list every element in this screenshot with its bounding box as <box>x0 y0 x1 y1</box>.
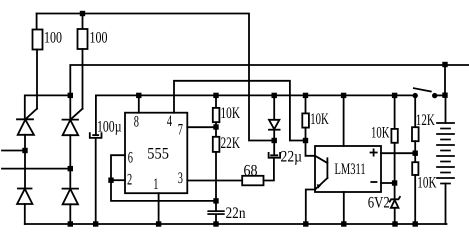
node AC1-SCR1 <box>22 148 27 153</box>
wire LM311 emitter to ground <box>306 190 315 225</box>
capacitor C1 100u <box>92 134 99 136</box>
node pin7 divider <box>213 124 218 129</box>
svg-text:8: 8 <box>134 114 139 131</box>
capacitor C3 22u <box>270 154 278 156</box>
diode D1 <box>18 188 32 190</box>
resistor R4 22K <box>215 127 217 137</box>
resistor R1 100 <box>36 14 38 30</box>
svg-text:10K: 10K <box>310 111 329 128</box>
switch S1 <box>414 88 431 91</box>
minus sign of LM311 <box>371 181 376 183</box>
node R3 top <box>213 93 218 98</box>
node D3 anode <box>272 93 277 98</box>
wire top rail <box>37 14 275 141</box>
node 555 pin8 Vcc <box>136 93 141 98</box>
resistor R7 10K <box>394 95 396 128</box>
resistor R5 68 <box>242 176 263 186</box>
IC U1 555 <box>125 113 187 194</box>
node ground R9 <box>413 221 418 226</box>
wire LM311 plus input pin <box>381 152 415 154</box>
resistor R9 10K <box>414 153 416 162</box>
node ground D2 <box>68 221 73 226</box>
svg-text:10K: 10K <box>371 124 390 141</box>
node plus input divider <box>413 151 418 156</box>
wire AC input 2 <box>2 168 70 170</box>
switch contact left <box>413 93 418 98</box>
node minus input zener <box>392 180 397 185</box>
svg-text:10K: 10K <box>221 105 241 122</box>
wire 555 pin 8 to Vcc <box>138 95 140 112</box>
diode D3 <box>273 95 275 119</box>
zener diode ZD 6V2 <box>394 183 396 199</box>
svg-text:22µ: 22µ <box>281 149 303 166</box>
node D3 cathode 22u <box>272 138 277 143</box>
wire Vcc rail <box>96 95 413 134</box>
diode D2 <box>63 188 79 190</box>
svg-text:7: 7 <box>178 122 183 139</box>
battery BT1 <box>437 123 454 184</box>
node 22n top <box>213 198 218 203</box>
svg-text:3: 3 <box>178 170 183 187</box>
svg-text:6V2: 6V2 <box>368 195 390 212</box>
svg-text:22K: 22K <box>221 135 241 152</box>
node R6 top <box>303 93 308 98</box>
node switch-battery <box>442 93 447 98</box>
svg-text:555: 555 <box>147 146 169 163</box>
resistor R2 100 <box>82 14 84 30</box>
node LM311 V+ <box>341 93 346 98</box>
wire LM311 minus input pin <box>381 182 394 184</box>
switch contact right <box>432 93 437 98</box>
node ground zener <box>392 221 397 226</box>
node R2 top <box>80 11 85 16</box>
wire LM311 input <box>306 141 316 156</box>
wire 555 pins 2-6 <box>111 155 216 201</box>
resistor R3 10K <box>215 95 217 108</box>
wire battery column <box>444 65 446 95</box>
svg-text:100: 100 <box>44 30 62 47</box>
wire bottom ground rail <box>25 223 447 225</box>
thyristor SCR2 <box>70 109 82 120</box>
wire AC input 1 <box>2 150 25 152</box>
node pin2 tap <box>108 178 113 183</box>
node ground pin1 <box>156 221 161 226</box>
wire LM311 V+ pin <box>343 95 345 146</box>
transistor inside LM311 <box>315 156 327 163</box>
node SCR cathodes <box>68 93 73 98</box>
svg-text:68: 68 <box>244 162 258 179</box>
resistor R8 12K <box>414 98 416 127</box>
node ground 22n <box>213 221 218 226</box>
wire 555 pin 1 to ground <box>158 193 160 224</box>
node LM311 input <box>303 138 308 143</box>
wire LM311 ground pin <box>343 192 345 224</box>
svg-text:1: 1 <box>153 176 158 193</box>
node ground 100u <box>93 221 98 226</box>
node AC2-SCR2 <box>68 166 73 171</box>
wire 555 pin 3 <box>187 180 242 182</box>
svg-text:2: 2 <box>127 172 132 189</box>
node ground emitter <box>303 221 308 226</box>
wire 555 pin 4 to LM311 input <box>174 81 306 141</box>
capacitor C2 22n <box>215 201 217 210</box>
svg-text:100: 100 <box>90 30 108 47</box>
svg-text:LM311: LM311 <box>335 161 366 178</box>
node ground LM311 <box>341 221 346 226</box>
svg-text:12K: 12K <box>416 112 435 129</box>
resistor R6 10K <box>305 95 307 113</box>
svg-text:6: 6 <box>128 150 133 167</box>
wire 555 pin 7 <box>187 126 216 128</box>
comparator U2 LM311 <box>315 146 381 192</box>
svg-text:100µ: 100µ <box>97 118 122 135</box>
wire charge rail to battery <box>70 65 469 95</box>
svg-text:22n: 22n <box>226 205 246 222</box>
node charge rail to battery <box>442 62 447 67</box>
thyristor SCR1 <box>25 109 37 120</box>
svg-text:10K: 10K <box>417 174 437 191</box>
plus sign of LM311 <box>371 152 377 154</box>
node R7 top <box>392 93 397 98</box>
svg-text:4: 4 <box>167 113 172 130</box>
